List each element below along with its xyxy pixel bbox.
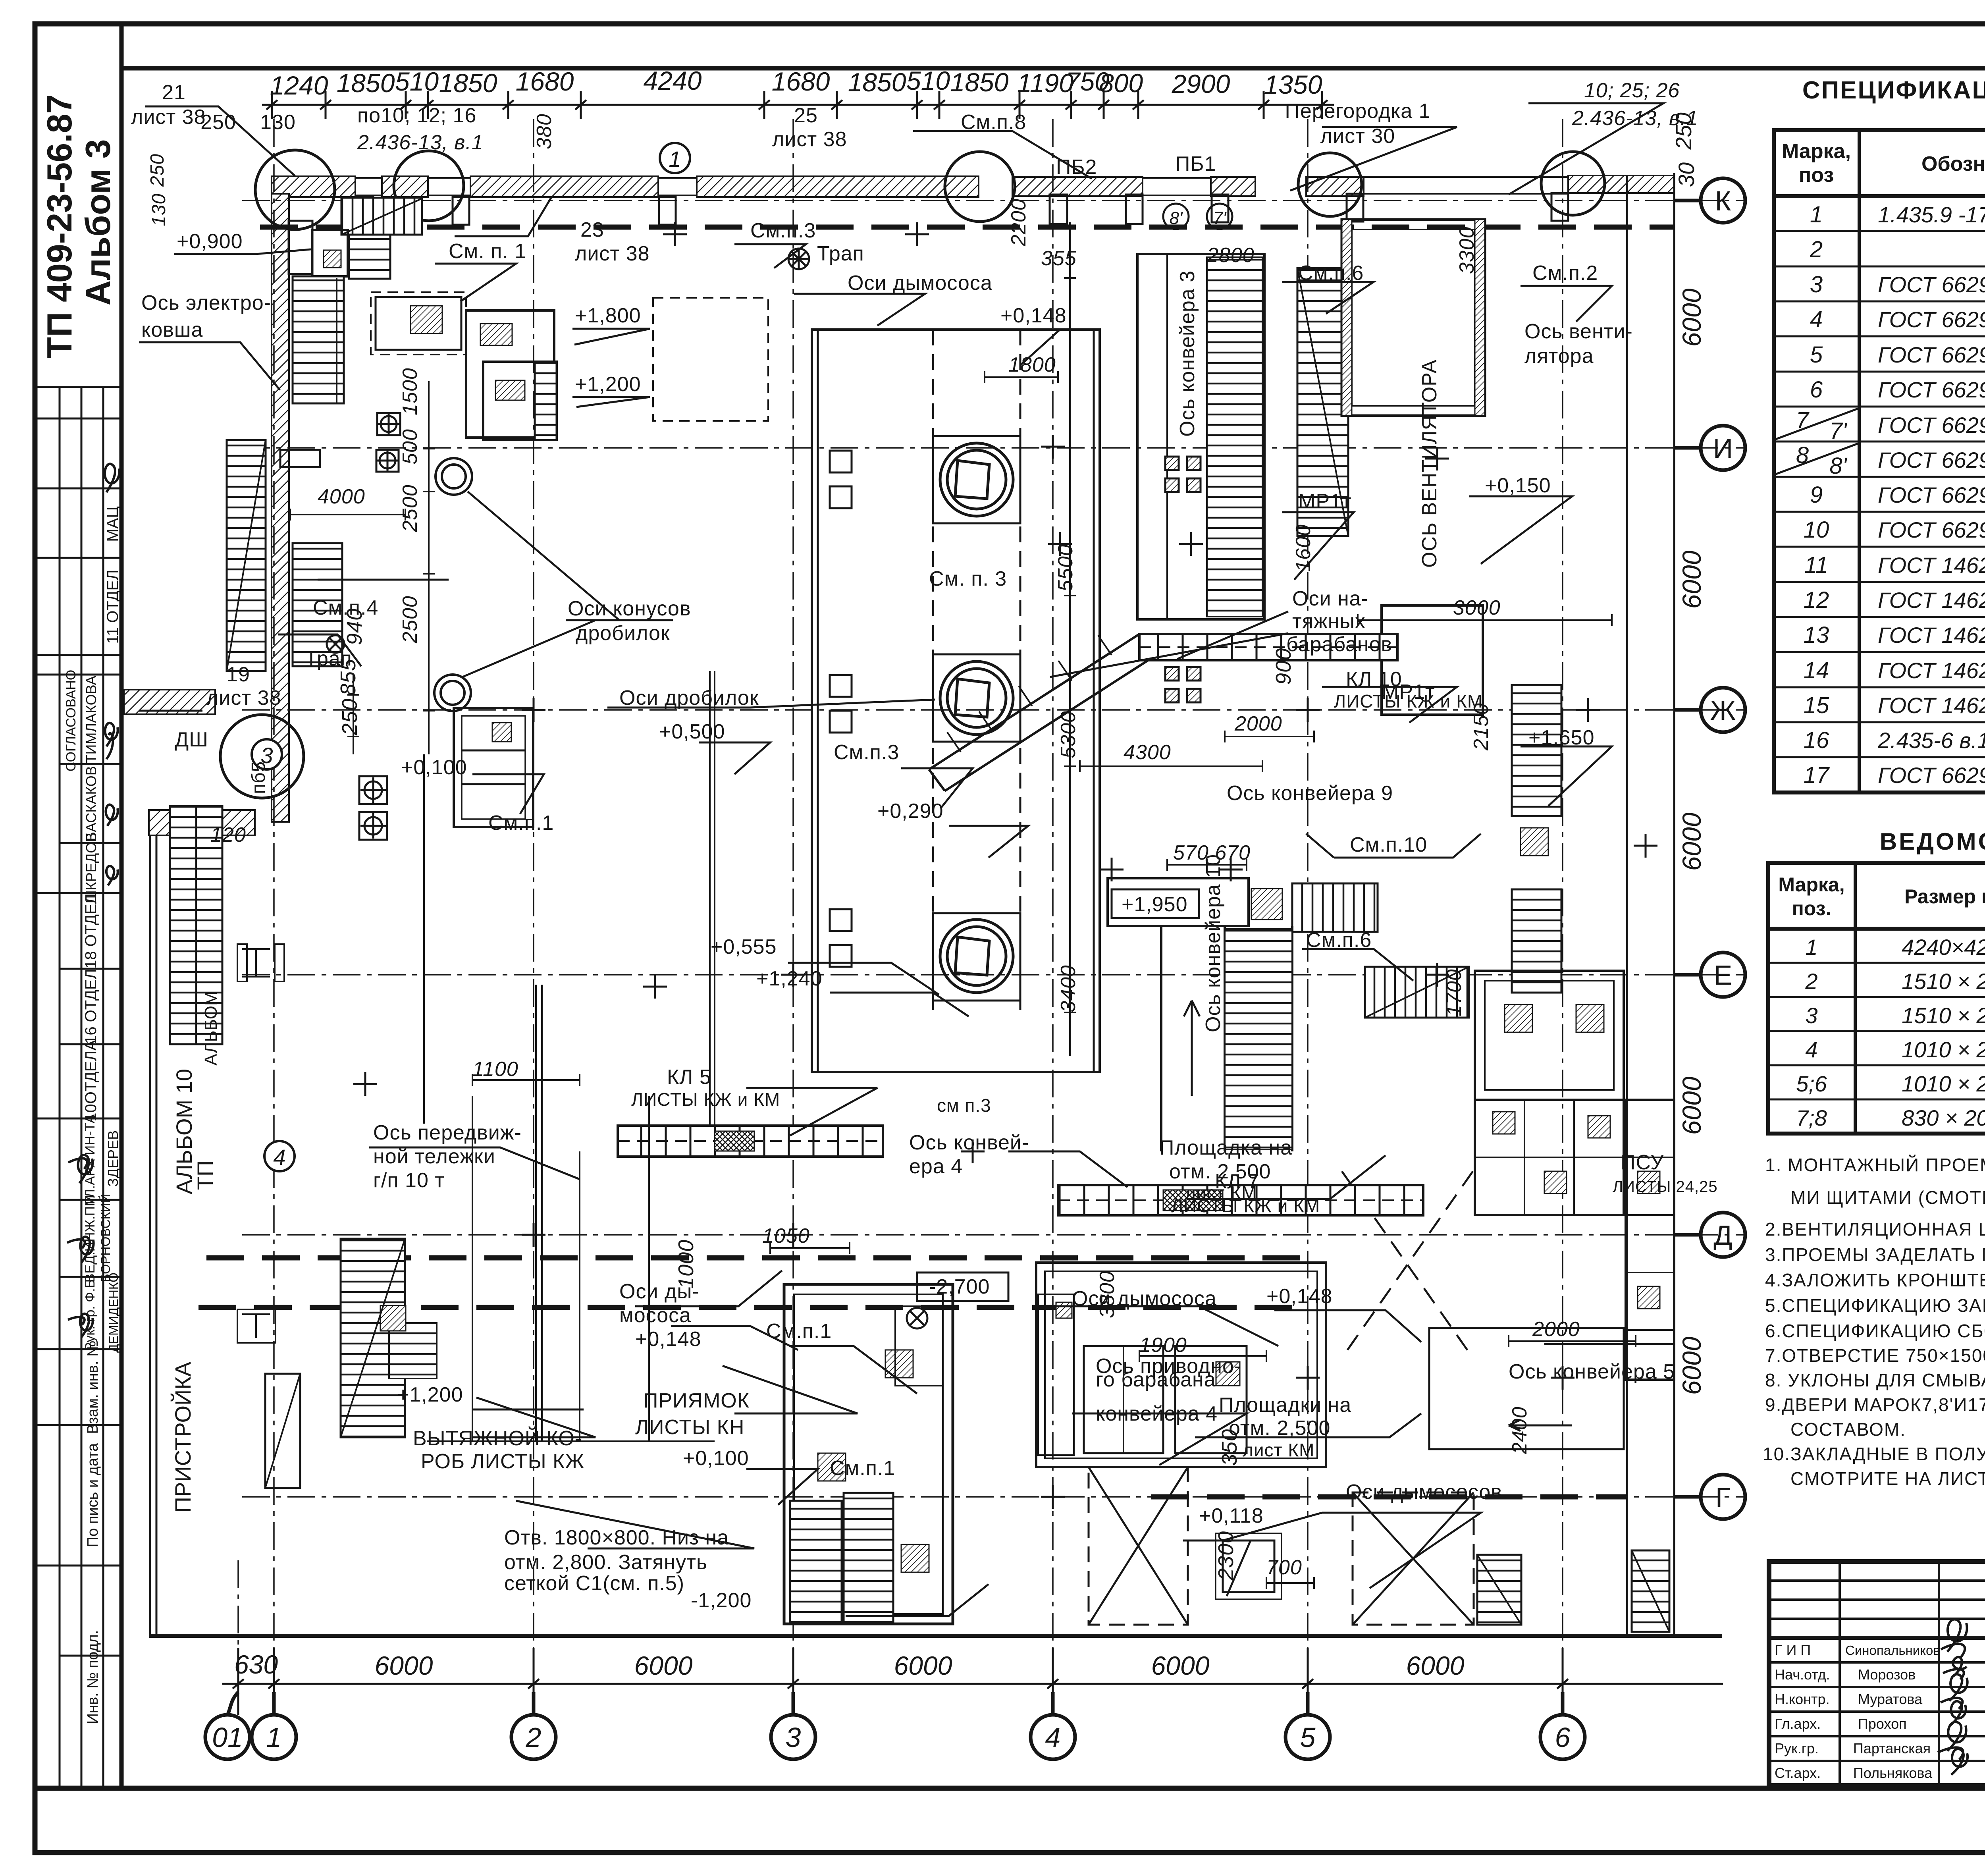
svg-text:830 × 2050: 830 × 2050 (1902, 1105, 1985, 1130)
svg-text:10: 10 (1804, 517, 1829, 543)
svg-text:ДШ: ДШ (175, 728, 208, 751)
vent chamber (1342, 220, 1485, 416)
svg-text:700: 700 (1266, 1556, 1302, 1579)
svg-text:2: 2 (1810, 237, 1823, 262)
svg-text:ПБ2: ПБ2 (1056, 156, 1097, 179)
svg-text:ЛИСТЫ 24,25: ЛИСТЫ 24,25 (1613, 1178, 1718, 1195)
svg-text:Оси дымососа: Оси дымососа (1072, 1287, 1217, 1310)
stair top-left comb (341, 198, 422, 235)
notes (1763, 1155, 1985, 1489)
svg-text:Е: Е (1714, 960, 1733, 991)
svg-text:барабанов: барабанов (1286, 633, 1392, 656)
svg-text:См.п.6: См.п.6 (1298, 262, 1364, 285)
svg-text:2150: 2150 (1470, 703, 1493, 751)
svg-text:1010 × 2370: 1010 × 2370 (1902, 1037, 1985, 1062)
rotated side captions (170, 991, 221, 1513)
svg-text:7': 7' (1213, 208, 1227, 228)
svg-text:мососа: мососа (619, 1304, 691, 1327)
svg-text:ГОСТ 6629-74*: ГОСТ 6629-74* (1878, 517, 1985, 542)
svg-text:10; 25; 26: 10; 25; 26 (1584, 79, 1680, 102)
specification table grid (1774, 130, 1985, 792)
svg-text:Взам. инв. №: Взам. инв. № (85, 1340, 101, 1434)
svg-text:г/п 10 т: г/п 10 т (373, 1169, 445, 1192)
svg-text:Н.контр.: Н.контр. (1775, 1691, 1830, 1707)
svg-text:конвейера 4: конвейера 4 (1096, 1402, 1218, 1425)
svg-text:И: И (1713, 433, 1733, 464)
axis 1 bubble on wall (660, 143, 690, 173)
plan annotation leader lines (139, 103, 1675, 1616)
window box left (454, 708, 533, 827)
svg-text:См.п.1: См.п.1 (766, 1320, 832, 1343)
svg-text:См.п.10: См.п.10 (1350, 833, 1427, 856)
svg-text:Марка,: Марка, (1782, 140, 1851, 163)
svg-text:Рук.гр.: Рук.гр. (1775, 1740, 1819, 1756)
crane runway verticals (427, 985, 715, 1441)
svg-text:+0,290: +0,290 (877, 800, 944, 823)
svg-text:1: 1 (669, 147, 681, 172)
svg-text:1600: 1600 (1292, 524, 1315, 572)
svg-text:120: 120 (210, 823, 246, 846)
smoke fan foundation (1216, 1533, 1282, 1599)
svg-text:ПРИЯМОК: ПРИЯМОК (643, 1389, 750, 1412)
svg-text:3300: 3300 (1455, 226, 1478, 274)
svg-text:ЗДЕРЕВ: ЗДЕРЕВ (105, 1130, 121, 1187)
svg-text:3: 3 (1810, 272, 1823, 297)
svg-text:5;6: 5;6 (1796, 1071, 1827, 1096)
svg-text:По пись и дата: По пись и дата (85, 1443, 101, 1547)
stamp internal verticals (60, 387, 103, 1788)
svg-text:См.п.2: См.п.2 (1532, 262, 1598, 285)
svg-text:БОРНОВСКИЙ: БОРНОВСКИЙ (98, 1194, 113, 1282)
svg-text:ВЫТЯЖНОЙ КО-: ВЫТЯЖНОЙ КО- (413, 1427, 582, 1450)
svg-text:Прохоп: Прохоп (1858, 1716, 1907, 1732)
svg-text:Д: Д (1713, 1220, 1732, 1251)
svg-text:дробилок: дробилок (576, 622, 670, 645)
svg-text:2900: 2900 (1172, 69, 1230, 98)
svg-text:17: 17 (1804, 762, 1830, 788)
svg-text:ОСЬ ВЕНТИЛЯТОРА: ОСЬ ВЕНТИЛЯТОРА (1418, 359, 1441, 568)
svg-text:3000: 3000 (1453, 596, 1501, 619)
crossed openings (1089, 1171, 1474, 1625)
annex return wall (149, 810, 255, 835)
svg-text:2300: 2300 (1214, 1531, 1238, 1581)
svg-text:6000: 6000 (1677, 550, 1706, 609)
svg-text:см п.3: см п.3 (937, 1095, 991, 1116)
svg-text:250: 250 (200, 111, 236, 134)
svg-text:ГОСТ 14624-84: ГОСТ 14624-84 (1878, 588, 1985, 613)
svg-text:1900: 1900 (1139, 1334, 1187, 1357)
svg-text:1050: 1050 (762, 1224, 810, 1247)
svg-text:8. УКЛОНЫ ДЛЯ СМЫВА ПОЛОВ СМОТ: 8. УКЛОНЫ ДЛЯ СМЫВА ПОЛОВ СМОТРИТЕ ЛИСТ … (1765, 1370, 1985, 1390)
svg-text:4: 4 (1805, 1037, 1817, 1062)
svg-text:2.436-13, в.1: 2.436-13, в.1 (1572, 107, 1698, 130)
stair flights left (293, 276, 344, 403)
svg-text:ГОСТ 6629-74*: ГОСТ 6629-74* (1878, 763, 1985, 788)
svg-text:4240×4200: 4240×4200 (1902, 935, 1985, 960)
svg-text:1240: 1240 (270, 71, 328, 100)
svg-text:КЛ 7: КЛ 7 (1215, 1170, 1259, 1193)
columns I-sections (237, 944, 284, 1343)
svg-text:РОБ ЛИСТЫ КЖ: РОБ ЛИСТЫ КЖ (421, 1450, 584, 1473)
svg-text:лист 38: лист 38 (206, 686, 281, 710)
svg-text:СОСТАВОМ.: СОСТАВОМ. (1790, 1419, 1906, 1440)
conveyor 3 shaft (1137, 254, 1264, 619)
svg-text:пб5: пб5 (248, 761, 269, 794)
pit room (приямок) (784, 1284, 953, 1624)
svg-text:ТИМЛАКОВА: ТИМЛАКОВА (83, 676, 99, 764)
svg-text:01: 01 (212, 1722, 243, 1753)
svg-text:940: 940 (343, 608, 366, 645)
right rooms block (1475, 971, 1674, 1380)
svg-text:Оси дробилок: Оси дробилок (619, 686, 759, 710)
svg-text:См. п. 3: См. п. 3 (929, 567, 1007, 590)
rooms +1800/+1200 (466, 310, 554, 438)
svg-text:8': 8' (1170, 208, 1183, 228)
svg-text:КЛ 5: КЛ 5 (667, 1066, 711, 1089)
interior dim lines (290, 222, 1636, 1589)
svg-text:13: 13 (1804, 622, 1829, 648)
svg-text:8': 8' (1829, 453, 1847, 479)
stair +1650 (1512, 685, 1561, 816)
svg-text:ВЕДОМОСТЬ ПРОЁМОВ ВОРОТ И ДВЕР: ВЕДОМОСТЬ ПРОЁМОВ ВОРОТ И ДВЕРЕЙ (1880, 828, 1985, 855)
svg-text:1100: 1100 (472, 1058, 518, 1081)
svg-text:СПЕЦИФИКАЦИЯ ЭЛЕМЕНТОВ ЗАПОЛНЕ: СПЕЦИФИКАЦИЯ ЭЛЕМЕНТОВ ЗАПОЛНЕНИЯ ПРОЕМО… (1802, 77, 1985, 104)
svg-text:10ОТДЕЛА: 10ОТДЕЛА (82, 1040, 100, 1122)
inner top rule (121, 66, 1985, 71)
svg-text:1: 1 (266, 1722, 282, 1753)
svg-text:6000: 6000 (1677, 288, 1706, 347)
room with hatch +0,900 (312, 230, 348, 276)
svg-text:Оси дымососов: Оси дымососов (1346, 1481, 1502, 1504)
svg-text:лятора: лятора (1524, 345, 1594, 368)
crusher hall (812, 330, 1100, 1072)
svg-text:355: 355 (1041, 247, 1077, 270)
svg-text:Польнякова: Польнякова (1853, 1765, 1933, 1781)
svg-text:2500: 2500 (399, 484, 422, 532)
svg-text:16 ОТДЕЛ: 16 ОТДЕЛ (82, 969, 100, 1044)
svg-text:К: К (1715, 185, 1731, 216)
stair small mid (1365, 967, 1469, 1018)
svg-text:лист 38: лист 38 (575, 242, 650, 265)
svg-text:7.ОТВЕРСТИЕ 750×1500 НИЗ НА ОТ: 7.ОТВЕРСТИЕ 750×1500 НИЗ НА ОТМ. 2,100 (1765, 1345, 1985, 1366)
svg-text:6000: 6000 (1677, 812, 1706, 871)
svg-text:350: 350 (1218, 1429, 1241, 1466)
svg-text:1010 × 2070: 1010 × 2070 (1902, 1071, 1985, 1096)
svg-text:ЛИСТЫ КЖ и КМ: ЛИСТЫ КЖ и КМ (1334, 691, 1483, 711)
svg-text:21: 21 (162, 81, 186, 104)
svg-text:+0,100: +0,100 (401, 756, 467, 779)
svg-text:Г: Г (1715, 1482, 1731, 1513)
KL7 gallery (1058, 1185, 1423, 1215)
svg-text:+0,118: +0,118 (1199, 1504, 1264, 1527)
svg-text:См.п.3: См.п.3 (834, 741, 899, 764)
svg-text:См.п.1: См.п.1 (830, 1457, 895, 1480)
svg-text:19: 19 (226, 663, 250, 686)
conveyor 5 outline (1429, 1328, 1624, 1449)
svg-text:См. п. 1: См. п. 1 (449, 240, 526, 263)
svg-text:Ось венти-: Ось венти- (1524, 320, 1633, 343)
svg-text:3: 3 (786, 1722, 801, 1753)
title block (1769, 1562, 1985, 1785)
svg-text:5.СПЕЦИФИКАЦИЮ ЗАКЛАДНЫХ ЭЛЕМЕ: 5.СПЕЦИФИКАЦИЮ ЗАКЛАДНЫХ ЭЛЕМЕНТОВ СМОТР… (1765, 1295, 1985, 1316)
svg-text:6000: 6000 (1677, 1076, 1706, 1135)
svg-text:1. МОНТАЖНЫЙ ПРОЕМ ОГРАДИТЬ СЪ: 1. МОНТАЖНЫЙ ПРОЕМ ОГРАДИТЬ СЪЕМНЫМИ ПЕР… (1765, 1155, 1985, 1175)
svg-text:МИ ЩИТАМИ (СМОТРИТЕ ЛИСТЫ КМ): МИ ЩИТАМИ (СМОТРИТЕ ЛИСТЫ КМ) (1790, 1187, 1985, 1208)
svg-text:510: 510 (395, 67, 439, 96)
svg-text:ТП 409-23-56.87: ТП 409-23-56.87 (40, 94, 79, 359)
annex left wall (150, 835, 156, 1636)
svg-text:+1,800: +1,800 (575, 304, 641, 327)
svg-text:+1,200: +1,200 (397, 1383, 463, 1406)
svg-text:9.ДВЕРИ МАРОК7,8'И17 ПОДВЕРГНУ: 9.ДВЕРИ МАРОК7,8'И17 ПОДВЕРГНУТЬ ГЛУБОКО… (1765, 1394, 1985, 1415)
room -2700 (1036, 1263, 1326, 1467)
svg-text:16: 16 (1804, 727, 1829, 753)
svg-text:СОГЛАСОВАНО: СОГЛАСОВАНО (64, 670, 79, 771)
svg-text:23: 23 (580, 218, 604, 241)
svg-text:11 ОТДЕЛ: 11 ОТДЕЛ (104, 570, 121, 644)
svg-text:ЛИСТЫ КЖ и КМ: ЛИСТЫ КЖ и КМ (631, 1089, 780, 1110)
svg-text:ГОСТ 14624-84: ГОСТ 14624-84 (1878, 553, 1985, 578)
svg-text:9: 9 (1810, 482, 1823, 508)
svg-text:1850: 1850 (848, 67, 906, 97)
svg-text:Перегородка 1: Перегородка 1 (1285, 100, 1430, 123)
svg-text:4: 4 (1810, 307, 1823, 332)
svg-text:8: 8 (1796, 442, 1809, 468)
svg-text:6000: 6000 (375, 1651, 433, 1680)
svg-text:Нач.отд.: Нач.отд. (1775, 1666, 1830, 1683)
svg-text:4: 4 (1045, 1722, 1061, 1753)
svg-text:+1,950: +1,950 (1122, 893, 1188, 916)
bottom dimension chain (222, 1648, 1723, 1715)
svg-text:Площадка на: Площадка на (1159, 1136, 1292, 1159)
bottom plan edge (149, 1634, 1722, 1638)
stamp horizontal dividers (35, 387, 121, 1656)
annex lower stair (341, 1239, 405, 1437)
svg-text:6000: 6000 (1406, 1651, 1465, 1680)
bottom grid bubbles (205, 1692, 1585, 1759)
svg-text:Трап: Трап (817, 242, 864, 265)
svg-text:6000: 6000 (1677, 1336, 1706, 1395)
doors schedule left table (1768, 863, 1985, 1134)
svg-text:6000: 6000 (1151, 1651, 1210, 1680)
svg-text:18 ОТДЕЛ: 18 ОТДЕЛ (82, 893, 100, 969)
svg-text:500: 500 (399, 429, 422, 465)
detail circles on walls (220, 150, 1605, 798)
svg-text:Альбом 3: Альбом 3 (78, 139, 118, 306)
svg-text:по10; 12; 16: по10; 12; 16 (357, 104, 476, 127)
svg-text:ГОСТ 14624-84: ГОСТ 14624-84 (1878, 693, 1985, 718)
svg-text:БАСКАКОВ: БАСКАКОВ (83, 766, 99, 841)
svg-text:130: 130 (260, 111, 296, 134)
svg-text:1: 1 (1805, 935, 1817, 960)
svg-text:630: 630 (234, 1650, 278, 1679)
svg-text:ГОСТ 6629-74*: ГОСТ 6629-74* (1878, 482, 1985, 507)
svg-text:1510 × 2370: 1510 × 2370 (1902, 1003, 1985, 1028)
left stamp column divider (119, 24, 124, 1788)
svg-text:См.п.1: См.п.1 (488, 812, 554, 835)
svg-text:ГОСТ 6629-74*: ГОСТ 6629-74* (1878, 377, 1985, 402)
svg-text:5500: 5500 (1054, 544, 1077, 592)
svg-text:лист 38: лист 38 (772, 128, 847, 151)
svg-text:ЛИСТЫ КН: ЛИСТЫ КН (635, 1416, 744, 1439)
svg-text:15: 15 (1804, 692, 1829, 718)
svg-text:Синопальников: Синопальников (1845, 1643, 1940, 1658)
svg-text:Оси на-: Оси на- (1292, 587, 1368, 610)
svg-text:855: 855 (336, 659, 360, 696)
svg-text:2: 2 (1805, 969, 1817, 994)
svg-text:510: 510 (906, 66, 950, 95)
svg-text:лист 38: лист 38 (131, 106, 206, 129)
svg-text:Ось конвейера 3: Ось конвейера 3 (1176, 270, 1199, 437)
svg-text:ера 4: ера 4 (909, 1155, 963, 1178)
svg-text:4000: 4000 (318, 485, 365, 508)
svg-text:сеткой С1(см. п.5): сеткой С1(см. п.5) (504, 1572, 684, 1595)
svg-text:130: 130 (148, 193, 170, 226)
svg-text:См.п.3: См.п.3 (750, 219, 816, 242)
svg-text:Ось конвейера 9: Ось конвейера 9 (1227, 782, 1393, 805)
svg-text:5: 5 (1810, 342, 1823, 368)
svg-text:10.ЗАКЛАДНЫЕ В ПОЛУ ПОД СТОЙКИ: 10.ЗАКЛАДНЫЕ В ПОЛУ ПОД СТОЙКИ КОНВЕЙЕРО… (1763, 1444, 1985, 1464)
svg-text:+0,148: +0,148 (1000, 304, 1067, 327)
svg-text:7: 7 (1796, 407, 1810, 433)
svg-text:Площадки на: Площадки на (1219, 1394, 1351, 1417)
svg-text:Марка,: Марка, (1778, 873, 1844, 896)
row axes horizontal (242, 201, 1745, 1497)
stair beside conveyor (1297, 268, 1348, 536)
top dimension chain (262, 91, 1334, 119)
upper centre dashed pit (653, 298, 768, 421)
svg-text:ГОСТ 6629-74*: ГОСТ 6629-74* (1878, 413, 1985, 438)
svg-text:отм. 2,500: отм. 2,500 (1229, 1417, 1330, 1440)
svg-text:2000: 2000 (1532, 1318, 1580, 1341)
trap drain symbols (327, 249, 927, 1328)
svg-text:2400: 2400 (1508, 1406, 1531, 1454)
svg-text:лист КМ: лист КМ (1243, 1440, 1315, 1460)
svg-text:1350: 1350 (1264, 70, 1322, 99)
svg-text:ГОСТ 14624-84: ГОСТ 14624-84 (1878, 623, 1985, 648)
svg-text:ДЕМИДЕНКО: ДЕМИДЕНКО (106, 1273, 121, 1353)
svg-text:380: 380 (533, 114, 556, 149)
diagonal gallery (929, 634, 1148, 791)
svg-text:6000: 6000 (894, 1651, 952, 1680)
svg-text:ПРИСТРОЙКА: ПРИСТРОЙКА (170, 1361, 195, 1513)
svg-text:ГОСТ 6629-74*: ГОСТ 6629-74* (1878, 307, 1985, 332)
svg-text:25: 25 (794, 104, 818, 127)
specification table rows (1796, 202, 1985, 788)
svg-text:отм. 2,800. Затянуть: отм. 2,800. Затянуть (504, 1551, 707, 1574)
svg-text:3400: 3400 (1057, 965, 1080, 1012)
svg-text:Г И П: Г И П (1775, 1642, 1811, 1658)
svg-text:Ось конвейера 10: Ось конвейера 10 (1202, 854, 1225, 1032)
right wall (1627, 173, 1674, 1636)
svg-text:АЛЬБОМ: АЛЬБОМ (201, 991, 221, 1065)
svg-text:+0,900: +0,900 (177, 230, 243, 253)
svg-text:800: 800 (1099, 68, 1143, 98)
svg-text:го барабана: го барабана (1096, 1368, 1216, 1391)
svg-text:Размер проёма в мм: Размер проёма в мм (1904, 885, 1985, 908)
specification table header (1782, 133, 1985, 196)
bold dashed partition lines (198, 227, 1674, 1497)
svg-text:2: 2 (526, 1722, 542, 1753)
svg-text:+0,148: +0,148 (1266, 1285, 1333, 1308)
svg-text:Обозначение: Обозначение (1921, 152, 1985, 175)
svg-text:2.ВЕНТИЛЯЦИОННАЯ ШАХТА РАЗРАБО: 2.ВЕНТИЛЯЦИОННАЯ ШАХТА РАЗРАБОТАНА НА ЛИ… (1765, 1219, 1985, 1240)
top wall hatched band (272, 175, 1674, 197)
svg-text:Оси ды-: Оси ды- (619, 1280, 700, 1303)
svg-text:+0,100: +0,100 (683, 1447, 749, 1470)
svg-text:СМОТРИТЕ НА ЛИСТАХ КЖ: СМОТРИТЕ НА ЛИСТАХ КЖ (1790, 1468, 1985, 1489)
svg-text:7;8: 7;8 (1796, 1105, 1827, 1130)
left wall hatched band (272, 194, 289, 822)
svg-text:1680: 1680 (516, 67, 574, 96)
svg-text:Инв. № подл.: Инв. № подл. (85, 1630, 101, 1724)
svg-text:Ст.арх.: Ст.арх. (1775, 1765, 1821, 1781)
svg-text:ВЕД.ИНЖ.ПМ: ВЕД.ИНЖ.ПМ (83, 1195, 98, 1282)
svg-text:Ось передвиж-: Ось передвиж- (373, 1121, 522, 1144)
svg-text:250: 250 (338, 698, 362, 736)
svg-text:1700: 1700 (1443, 969, 1466, 1016)
svg-text:Морозов: Морозов (1858, 1666, 1916, 1683)
svg-text:2.435-6 в.1: 2.435-6 в.1 (1877, 728, 1985, 753)
svg-text:+0,150: +0,150 (1485, 474, 1551, 497)
svg-text:ковша: ковша (141, 318, 203, 341)
svg-text:1800: 1800 (1008, 353, 1056, 376)
svg-text:3800: 3800 (1096, 1271, 1119, 1318)
stair bottom right (1477, 1555, 1521, 1625)
right margin bay dimensions (1671, 112, 1706, 1395)
svg-text:ТП: ТП (193, 1161, 218, 1190)
corner stair far right (1632, 1550, 1669, 1632)
svg-text:1850: 1850 (950, 67, 1009, 97)
inner bottom rule (35, 1786, 1985, 1791)
svg-text:2000: 2000 (1234, 712, 1282, 735)
svg-text:1.435.9 -17 в.3: 1.435.9 -17 в.3 (1878, 202, 1985, 227)
stamp signatures (67, 464, 119, 1337)
svg-text:ГОСТ 6629-74*: ГОСТ 6629-74* (1878, 447, 1985, 472)
plan annotations (131, 79, 1718, 1612)
svg-text:Ж: Ж (1710, 695, 1736, 726)
corner wall details (280, 221, 320, 467)
crane column lines (424, 671, 715, 1126)
column axes vertical (238, 119, 1563, 1685)
annex stair ПБ5 (170, 806, 222, 1044)
svg-text:4300: 4300 (1124, 741, 1171, 764)
svg-text:3: 3 (1805, 1003, 1817, 1028)
svg-text:1190: 1190 (1017, 68, 1073, 98)
svg-text:6.СПЕЦИФИКАЦИЮ СБОРНЫХ ЖЕЛЕЗОБ: 6.СПЕЦИФИКАЦИЮ СБОРНЫХ ЖЕЛЕЗОБЕТОНЫХ СТУ… (1765, 1321, 1985, 1341)
svg-text:1680: 1680 (772, 67, 830, 96)
svg-text:ЛИСТЫ КЖ и КМ: ЛИСТЫ КЖ и КМ (1171, 1195, 1320, 1216)
svg-text:МР1т: МР1т (1298, 490, 1352, 513)
svg-text:-1,200: -1,200 (691, 1589, 752, 1612)
svg-text:2.436-13, в.1: 2.436-13, в.1 (357, 131, 484, 154)
svg-text:4240: 4240 (644, 66, 702, 95)
svg-text:поз: поз (1799, 164, 1834, 187)
svg-text:МАЦ: МАЦ (104, 506, 121, 542)
svg-text:Оси конусов: Оси конусов (568, 597, 691, 620)
svg-text:Ось конвей-: Ось конвей- (909, 1131, 1029, 1154)
svg-text:ПСУ: ПСУ (1621, 1151, 1664, 1174)
svg-text:2800: 2800 (1206, 244, 1255, 267)
wall piers below band (357, 193, 1568, 225)
svg-text:3.ПРОЕМЫ ЗАДЕЛАТЬ ПОСЛЕ УСТАНО: 3.ПРОЕМЫ ЗАДЕЛАТЬ ПОСЛЕ УСТАНОВКИ ТРУБ (1765, 1244, 1985, 1265)
svg-text:4.ЗАЛОЖИТЬ КРОНШТЕЙНЫ ПО ЧЕРТЕ: 4.ЗАЛОЖИТЬ КРОНШТЕЙНЫ ПО ЧЕРТЕЖАМ ОВ. ВЕ… (1765, 1270, 1985, 1290)
svg-text:тяжных: тяжных (1292, 610, 1366, 633)
svg-text:7': 7' (1829, 418, 1847, 444)
MP1t box (1382, 605, 1483, 715)
scattered plus marks (353, 222, 1657, 1509)
outside stair left (227, 440, 266, 671)
